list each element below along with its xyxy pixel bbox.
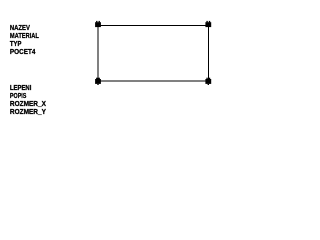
svg-text:POCET4: POCET4 (10, 47, 36, 56)
svg-text:ROZMER_Y: ROZMER_Y (10, 107, 46, 116)
